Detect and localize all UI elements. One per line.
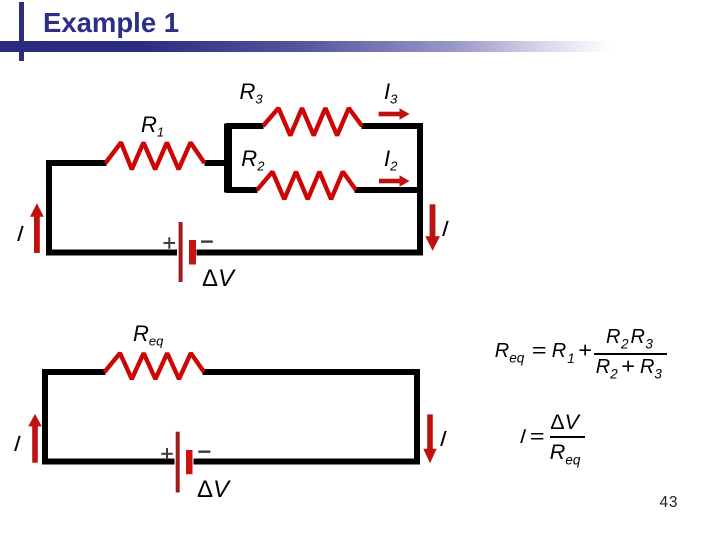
wire: parallel junction vertical: [224, 124, 232, 193]
formula 1 term R1: [552, 341, 575, 365]
resistor R2: [257, 172, 356, 200]
formula 2 numerator dV: [550, 412, 579, 434]
label I (bottom circuit right): [440, 428, 446, 450]
plus sign (bottom battery): [161, 448, 172, 459]
title underline gradient bar: [0, 41, 615, 52]
formula 2 equals sign: [531, 427, 543, 447]
label dV (bottom battery): [197, 478, 229, 502]
resistor R1: [106, 143, 205, 170]
plus sign (top battery): [164, 237, 176, 248]
label R3: [240, 81, 263, 106]
battery long plate (top circuit, +): [179, 222, 183, 282]
label I2: [384, 148, 397, 173]
title text: [43, 9, 179, 37]
current arrow I down (top circuit right): [430, 204, 436, 237]
wire: top circuit left side and top-left segment: [49, 163, 107, 253]
formula 2 term I: [520, 427, 526, 447]
wire: top branch left of R3: [226, 123, 264, 129]
wire: bottom branch right of R2: [355, 187, 424, 193]
label I (top circuit right): [442, 218, 448, 240]
current arrow I down (bottom circuit right): [427, 414, 433, 450]
formula 1 equals sign: [533, 341, 545, 361]
battery short plate (top circuit, -): [189, 240, 196, 265]
battery short plate (bottom circuit, -): [186, 450, 193, 474]
formula 1 fraction bar: [594, 353, 667, 355]
wire: bottom circuit bottom left piece: [42, 459, 175, 465]
page number: [660, 495, 679, 511]
label I (top circuit left): [17, 223, 23, 245]
battery long plate (bottom circuit, +): [176, 432, 180, 493]
minus sign (top battery): [201, 240, 213, 242]
wire: top circuit right vertical: [417, 123, 423, 253]
minus sign (bottom battery): [198, 451, 210, 453]
current arrow I up (top circuit left): [34, 215, 40, 253]
current arrow I2 (right on bottom branch): [379, 179, 400, 184]
wire: between R1 and parallel junction: [205, 160, 232, 166]
wire: top circuit bottom left piece: [46, 250, 177, 256]
current arrow I3 (right on top branch): [379, 112, 400, 117]
wire: bottom branch left of R2: [226, 187, 258, 193]
label dV (top battery): [202, 267, 234, 291]
resistor R3: [263, 108, 362, 135]
label R2: [241, 148, 264, 173]
label I (bottom circuit left): [14, 433, 20, 455]
wire: top branch right of R3: [362, 123, 424, 129]
wire: bottom circuit bottom right piece: [194, 459, 421, 465]
label I3: [384, 81, 397, 106]
current arrow I up (bottom circuit left): [32, 425, 38, 463]
label R1: [141, 114, 164, 139]
label Req: [133, 323, 163, 348]
wire: bottom circuit top right segment and right vertical: [203, 372, 418, 462]
formula 1 denominator R2+R3: [596, 357, 662, 381]
formula 1 plus sign: [579, 341, 591, 361]
title accent vertical bar: [19, 2, 24, 61]
formula 2 fraction bar: [550, 436, 585, 438]
resistor Req: [105, 353, 205, 379]
wire: bottom circuit left side and top-left segment: [45, 372, 106, 462]
formula 1 numerator R2R3: [606, 327, 653, 351]
formula 1 term Req: [495, 341, 524, 365]
formula 2 denominator Req: [550, 442, 581, 467]
wire: top circuit bottom right piece: [197, 250, 424, 256]
